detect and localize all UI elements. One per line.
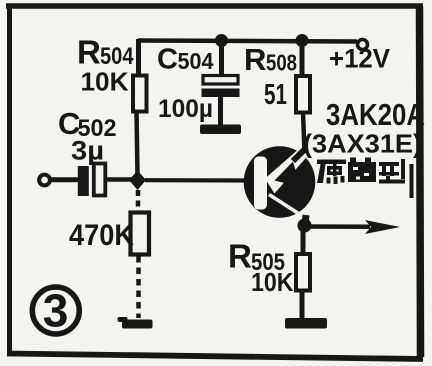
- terminal: signal input: [39, 175, 50, 186]
- wire: rail down to R504: [136, 39, 141, 77]
- char 1: [317, 160, 346, 165]
- wire: output node to R505: [301, 229, 306, 256]
- wire: dashed, input node to 470K: [136, 190, 141, 214]
- wire: C504 from rail: [219, 43, 224, 77]
- char 3: [379, 162, 399, 166]
- wire: R505 to ground: [300, 290, 305, 319]
- wire: C504 to ground: [218, 97, 223, 126]
- wire: transistor collector to output node: [305, 215, 307, 229]
- ground: 470K: [118, 317, 153, 329]
- resistor R508 body: [296, 76, 310, 113]
- transistor Q1 3AK20A body: [244, 146, 316, 218]
- wire: output line: [305, 224, 371, 229]
- label: yuan-guan-xing (Chinese): [317, 158, 405, 185]
- label: R505: [228, 238, 285, 277]
- resistor R504 body: [133, 76, 147, 112]
- junction: output node: [298, 219, 312, 233]
- arrow: output: [365, 220, 400, 234]
- wire: R504 to input node: [137, 111, 138, 176]
- wire: C502 to base node: [106, 177, 133, 182]
- capacitor C504 (bottom plate, solid): [202, 89, 240, 98]
- wire: base node to transistor base: [145, 178, 252, 183]
- wire: rail down to R508: [300, 43, 305, 77]
- junction: rail / C504: [215, 34, 228, 47]
- wire: +12V supply rail: [138, 41, 357, 42]
- wire: input terminal to C502: [50, 177, 79, 182]
- transistor base bar: [254, 148, 310, 221]
- wire: dashed, 470K to ground: [136, 256, 141, 318]
- label: R504: [77, 34, 134, 71]
- label: C504: [157, 44, 214, 76]
- resistor R505 body: [296, 254, 310, 291]
- paper noise: [0, 0, 1, 1]
- ground: C504: [200, 125, 241, 135]
- figure number badge 3: [32, 285, 79, 337]
- collector lead cutout: [269, 195, 310, 221]
- ground: R505: [285, 318, 327, 329]
- terminal: +12V supply: [358, 40, 368, 50]
- capacitor C502 (plate 1, solid): [78, 166, 89, 196]
- transistor emitter arrow (PNP): [275, 150, 305, 187]
- stroke: right of Chinese label: [410, 164, 414, 198]
- label: R508: [244, 42, 297, 77]
- capacitor C502 (plate 2, hollow): [94, 164, 106, 196]
- junction: rail / R508: [296, 34, 309, 47]
- emitter halo: [265, 148, 308, 194]
- resistor R (470K) body: [131, 213, 150, 255]
- label: C502: [58, 106, 117, 142]
- char 2 (dense blob): [348, 162, 376, 182]
- junction: input node (base / R504 / 470K): [129, 171, 146, 191]
- capacitor C504 (top plate, hollow): [203, 76, 238, 85]
- wire: R508 to transistor emitter: [303, 112, 305, 152]
